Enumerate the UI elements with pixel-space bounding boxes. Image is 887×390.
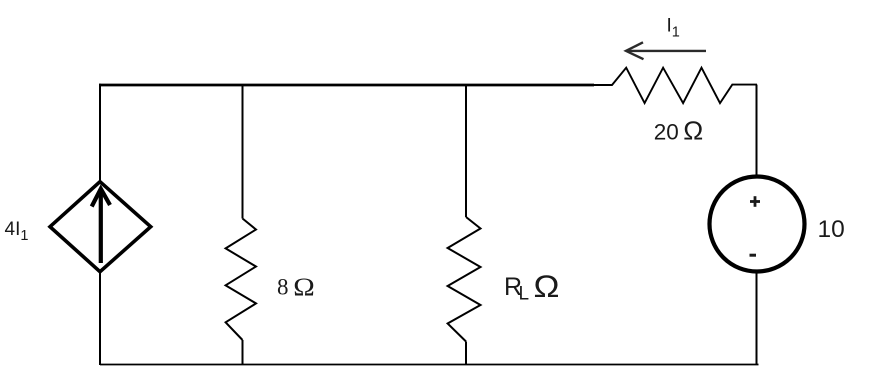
svg-text:10: 10 bbox=[818, 216, 845, 243]
wire 8-ohm branch bottom stub bbox=[242, 340, 244, 365]
voltage source circle bbox=[710, 177, 805, 272]
wire top horizontal bbox=[99, 84, 594, 87]
svg-text:I1: I1 bbox=[667, 16, 680, 41]
wire RL branch bottom stub bbox=[465, 342, 467, 366]
wire right vertical upper bbox=[756, 85, 758, 177]
resistor RL zigzag bbox=[448, 217, 481, 342]
wire right vertical lower bbox=[756, 272, 758, 366]
dependent current source 4I1 diamond bbox=[50, 182, 151, 272]
wire 8-ohm branch top stub bbox=[242, 85, 244, 219]
wire bottom horizontal bbox=[100, 364, 759, 366]
dependent source arrow bbox=[92, 189, 110, 263]
voltage source plus bbox=[750, 196, 760, 207]
svg-text:RLΩ: RLΩ bbox=[504, 268, 560, 305]
svg-text:4I1: 4I1 bbox=[5, 219, 29, 244]
voltage source minus bbox=[750, 254, 757, 257]
svg-text:8Ω: 8Ω bbox=[277, 272, 315, 301]
current arrow I1 bbox=[626, 42, 706, 59]
svg-text:20Ω: 20Ω bbox=[654, 118, 704, 146]
resistor 8 ohm zigzag bbox=[226, 219, 256, 341]
wire RL branch top stub bbox=[465, 85, 467, 217]
wire left vertical lower bbox=[99, 272, 101, 365]
resistor 20 ohm horizontal zigzag bbox=[594, 68, 757, 103]
wire left vertical upper bbox=[99, 84, 101, 182]
